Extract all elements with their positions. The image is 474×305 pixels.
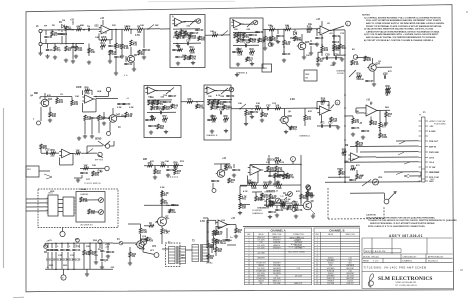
wire xyxy=(113,141,115,146)
lamp pilot light xyxy=(141,239,147,245)
wire xyxy=(47,252,49,258)
pin tick xyxy=(74,203,76,205)
svg-text:2.2K: 2.2K xyxy=(154,109,159,111)
svg-text:C78: C78 xyxy=(298,210,303,212)
svg-text:96-236-01: 96-236-01 xyxy=(428,261,439,263)
resistor R61 xyxy=(379,133,388,139)
wire xyxy=(47,261,49,269)
svg-text:POWER SW: POWER SW xyxy=(256,270,266,272)
svg-text:10K: 10K xyxy=(208,96,212,98)
svg-text:-15V: -15V xyxy=(110,267,115,269)
svg-text:10K 1/4W: 10K 1/4W xyxy=(347,275,355,277)
pin tick xyxy=(47,200,49,202)
wire xyxy=(242,23,253,25)
terminal gnd lug xyxy=(107,132,111,136)
node xyxy=(370,121,372,123)
balloon note 7 xyxy=(291,157,296,162)
svg-text:4: 4 xyxy=(248,245,249,247)
svg-text:10K: 10K xyxy=(360,175,364,177)
transistor Q2 xyxy=(297,42,310,50)
resistor R130 xyxy=(274,173,282,179)
pin tick xyxy=(74,197,76,199)
resistor R86 xyxy=(161,191,169,197)
wire xyxy=(161,226,163,229)
wire xyxy=(321,115,323,123)
resistor R44 xyxy=(163,116,168,124)
svg-text:3: 3 xyxy=(317,242,318,244)
svg-text:+: + xyxy=(208,92,209,94)
wire xyxy=(261,198,263,199)
dashed boundary vertical 2 xyxy=(383,206,385,219)
box module A1 xyxy=(170,15,205,68)
node xyxy=(73,242,75,244)
LED D2 xyxy=(99,198,104,203)
terminal mic xyxy=(37,121,41,125)
wire jack lever xyxy=(105,141,110,146)
wire xyxy=(213,236,215,239)
wire xyxy=(233,164,235,168)
wire xyxy=(316,102,318,109)
svg-text:AND TO COME ROUND SUPPLY OR IN: AND TO COME ROUND SUPPLY OR INDICATED DE… xyxy=(366,22,445,25)
svg-text:+: + xyxy=(321,112,322,114)
svg-text:WHT/BRN: WHT/BRN xyxy=(346,265,354,267)
svg-text:100K: 100K xyxy=(190,53,196,55)
svg-text:220 OHM: 220 OHM xyxy=(327,283,335,285)
wire xyxy=(142,249,144,253)
op-amp U2A xyxy=(172,18,184,26)
svg-text:XFMR PRI: XFMR PRI xyxy=(327,278,335,280)
svg-text:FULL LEFT ROTATION ASSEMBLE MA: FULL LEFT ROTATION ASSEMBLE MAJORS. DIFF… xyxy=(366,19,442,22)
wire xyxy=(307,197,309,201)
wire angled3 xyxy=(396,172,403,175)
wire xyxy=(40,107,42,121)
resistor R70 xyxy=(174,163,179,171)
wire +15 stub xyxy=(72,22,74,26)
wire xyxy=(303,50,305,56)
wire xyxy=(212,183,214,189)
resistor R56 xyxy=(304,115,312,121)
capacitor C53 xyxy=(315,37,324,40)
svg-text:R11: R11 xyxy=(264,197,269,199)
capacitor C42 xyxy=(72,259,81,262)
svg-text:C42: C42 xyxy=(280,35,285,38)
svg-text:.022: .022 xyxy=(281,206,286,208)
svg-text:12: 12 xyxy=(316,265,318,267)
svg-text:17: 17 xyxy=(248,278,250,280)
wire switch to pot xyxy=(362,180,371,187)
pin tick xyxy=(74,206,76,208)
wire xyxy=(356,112,364,114)
resistor R137 xyxy=(333,46,340,52)
svg-text:100K: 100K xyxy=(267,40,273,42)
node xyxy=(180,28,182,30)
wire xyxy=(74,177,82,179)
resistor R121 xyxy=(180,30,189,36)
svg-text:Q26: Q26 xyxy=(305,42,310,44)
svg-text:.047: .047 xyxy=(215,103,220,106)
wire xyxy=(73,252,75,258)
svg-text:R94: R94 xyxy=(275,157,280,160)
transistor Q1 xyxy=(126,55,138,63)
ground xyxy=(94,260,98,264)
resistor R114 xyxy=(154,169,162,175)
wire ribbon jumper 4 xyxy=(58,211,63,213)
svg-text:33K: 33K xyxy=(137,32,142,34)
potentiometer VR4 xyxy=(276,198,281,203)
wire stub xyxy=(44,243,46,247)
logo SLM clef xyxy=(368,274,373,288)
resistor R92 xyxy=(212,238,220,244)
ground xyxy=(38,51,42,55)
svg-text:1M: 1M xyxy=(62,20,65,22)
connector P1 pin 2 xyxy=(419,126,434,128)
wire xyxy=(40,46,42,52)
resistor R38 xyxy=(40,144,48,150)
svg-text:R77: R77 xyxy=(294,202,299,204)
capacitor C61 xyxy=(166,169,175,172)
svg-text:10K: 10K xyxy=(238,103,242,105)
resistor R50 xyxy=(212,115,217,124)
resistor Rb2 xyxy=(189,35,197,41)
wire psu top rail xyxy=(45,242,113,244)
node bus junction xyxy=(344,176,346,178)
svg-text:R16: R16 xyxy=(190,47,195,49)
wire xyxy=(51,243,53,248)
capacitor C55 xyxy=(168,95,177,98)
svg-text:10u: 10u xyxy=(277,177,282,179)
connector P1 pin 13 xyxy=(419,181,435,183)
wire xyxy=(82,90,84,95)
transistor Q7 xyxy=(216,169,229,177)
svg-text:.047: .047 xyxy=(192,37,197,40)
capacitor C32 xyxy=(171,204,179,207)
resistor R66 xyxy=(80,197,88,203)
capacitor C26 xyxy=(351,127,360,129)
wire long to edge xyxy=(325,181,421,184)
svg-text:17: 17 xyxy=(316,278,318,280)
wire xyxy=(39,97,41,99)
wire xyxy=(383,193,385,199)
wire into module A1 xyxy=(160,28,170,30)
resistor R41 xyxy=(148,100,156,106)
svg-text:WHT/BRN: WHT/BRN xyxy=(327,260,335,262)
node xyxy=(154,99,156,101)
node bus junction xyxy=(344,107,346,109)
ground xyxy=(87,60,91,64)
resistor R21 xyxy=(250,49,255,57)
svg-text:+: + xyxy=(235,25,236,27)
svg-text:10K: 10K xyxy=(75,96,79,98)
resistor R136 xyxy=(269,201,276,207)
wire xyxy=(339,36,341,44)
wire to pin 11 xyxy=(384,171,419,173)
wire xyxy=(49,107,51,112)
wire xyxy=(39,170,50,172)
svg-text:2: 2 xyxy=(317,240,318,242)
resistor R9 xyxy=(115,43,123,49)
ground xyxy=(74,54,78,58)
wire xyxy=(321,35,323,46)
svg-text:10u: 10u xyxy=(112,54,117,56)
svg-text:R14: R14 xyxy=(101,42,106,45)
svg-text:11: 11 xyxy=(316,263,318,265)
resistor R116 xyxy=(255,196,263,202)
ground xyxy=(108,59,112,63)
wire xyxy=(130,29,132,34)
svg-text:8: 8 xyxy=(317,255,318,257)
svg-text:+: + xyxy=(251,172,252,174)
resistor R82 xyxy=(306,191,314,197)
connector P1 note xyxy=(434,120,446,126)
svg-text:R23: R23 xyxy=(250,49,255,51)
resistor R89 xyxy=(149,223,154,227)
svg-text:22K: 22K xyxy=(143,159,148,161)
tick mark xyxy=(460,269,463,271)
resistor R127 xyxy=(294,202,299,210)
wire feedback top xyxy=(87,89,92,91)
capacitor C33 xyxy=(225,239,232,242)
node xyxy=(339,176,341,178)
svg-text:2.2K: 2.2K xyxy=(83,201,88,203)
resistor R24 xyxy=(283,40,291,46)
resistor R71 xyxy=(174,169,182,175)
op-amp U8 xyxy=(348,153,361,161)
terminal psu in2 xyxy=(98,240,102,244)
resistor R52 xyxy=(245,110,253,116)
ground xyxy=(284,130,288,134)
wire xyxy=(101,262,103,267)
svg-text:+: + xyxy=(367,113,368,115)
wire xyxy=(360,156,377,158)
node xyxy=(283,51,285,53)
ground xyxy=(164,130,168,134)
wire xyxy=(226,228,228,239)
capacitor C40 xyxy=(60,259,69,262)
node xyxy=(321,44,323,46)
wire xyxy=(207,218,209,243)
svg-text:WHT/BRN: WHT/BRN xyxy=(273,270,281,272)
svg-text:REF: REF xyxy=(247,234,250,236)
wire xyxy=(40,33,42,43)
title block row model xyxy=(363,255,444,258)
node xyxy=(300,164,302,166)
svg-text:33K: 33K xyxy=(268,25,272,27)
ground xyxy=(361,135,365,139)
pin tick xyxy=(47,203,49,205)
title block row page xyxy=(363,260,439,263)
capacitor C23 xyxy=(266,105,271,110)
wire xyxy=(56,97,58,98)
wire xyxy=(67,261,69,269)
resistor R5 xyxy=(88,48,96,54)
svg-text:CHANNEL B: CHANNEL B xyxy=(206,134,218,137)
node xyxy=(316,29,318,31)
wire xyxy=(377,109,390,111)
zener D4 xyxy=(76,244,79,247)
wire xyxy=(143,245,145,250)
resistor R14 xyxy=(178,47,183,51)
node xyxy=(207,222,209,224)
capacitor Cb1 xyxy=(182,36,191,39)
wire vcc stub xyxy=(321,21,323,26)
wire angled2 xyxy=(404,162,410,164)
wire xyxy=(316,30,318,37)
ground xyxy=(309,51,313,55)
node bus junction xyxy=(344,154,346,156)
wire xyxy=(111,30,113,41)
svg-text:C76: C76 xyxy=(211,120,216,122)
svg-text:C11: C11 xyxy=(54,250,59,252)
wire xyxy=(109,122,111,132)
wire xyxy=(99,244,101,248)
wire xyxy=(95,255,97,260)
capacitor C75 xyxy=(46,249,53,252)
resistor R105 xyxy=(198,36,206,42)
capacitor C15 xyxy=(383,74,388,79)
wire fb U9 xyxy=(250,163,301,165)
svg-text:2.2K: 2.2K xyxy=(124,48,129,50)
wire balloon stem xyxy=(292,161,294,164)
wire ribbon 2 xyxy=(26,202,48,204)
terminal T1 xyxy=(60,231,65,236)
pin tick xyxy=(74,212,76,214)
wire xyxy=(339,49,341,55)
node xyxy=(67,243,69,245)
wire ribbon jumper 3 xyxy=(58,207,63,209)
svg-text:C31: C31 xyxy=(48,37,53,39)
wire xyxy=(98,121,100,134)
pin tick xyxy=(74,209,76,211)
svg-text:CHANNEL B: CHANNEL B xyxy=(257,207,269,210)
svg-text:C56: C56 xyxy=(167,102,172,104)
resistor R12 xyxy=(175,31,183,37)
resistor R74 xyxy=(248,180,253,184)
wire xyxy=(318,51,322,53)
svg-text:VU METER: VU METER xyxy=(252,210,262,212)
resistor R1 xyxy=(51,31,58,37)
wire xyxy=(42,42,60,44)
svg-text:10K 1/4W: 10K 1/4W xyxy=(295,275,303,277)
resistor R55 xyxy=(290,126,298,131)
ground xyxy=(150,115,154,119)
svg-text:TO FOOT SWITCH: TO FOOT SWITCH xyxy=(84,183,101,185)
ground xyxy=(149,130,153,134)
svg-text:47p: 47p xyxy=(293,128,298,131)
wire xyxy=(373,72,375,83)
resistor R64 xyxy=(84,166,89,170)
wire xyxy=(372,58,374,64)
wire xyxy=(276,206,278,209)
resistor R95 xyxy=(287,206,295,211)
svg-text:C50: C50 xyxy=(230,96,235,98)
capacitor C30 xyxy=(276,175,285,178)
wire xyxy=(334,29,345,31)
wire ribbon jumper 2 xyxy=(58,203,63,205)
wire xyxy=(257,172,259,184)
resistor R36 xyxy=(98,115,106,121)
wire ribbon 1 xyxy=(26,198,48,200)
title block frame xyxy=(362,238,453,289)
wire xyxy=(156,90,170,92)
svg-text:220 OHM: 220 OHM xyxy=(273,283,281,285)
transistor Q5 xyxy=(108,113,121,122)
svg-text:2.2K: 2.2K xyxy=(160,187,165,189)
ground xyxy=(260,118,264,122)
wire xyxy=(379,110,381,122)
svg-text:2200: 2200 xyxy=(49,265,53,267)
resistor R53 xyxy=(255,106,261,110)
svg-text:WIRE CODE: WIRE CODE xyxy=(272,234,281,236)
wire xyxy=(73,261,75,269)
transistor Q8 xyxy=(302,201,315,210)
svg-text:R24: R24 xyxy=(286,43,291,46)
tick mark xyxy=(466,11,468,13)
svg-text:1N4003: 1N4003 xyxy=(328,258,334,260)
wire xyxy=(274,178,276,183)
ground xyxy=(332,61,336,65)
svg-text:2.2K: 2.2K xyxy=(286,199,291,201)
svg-text:2.2K: 2.2K xyxy=(258,200,263,202)
resistor R69 xyxy=(161,163,166,167)
svg-text:1K: 1K xyxy=(182,55,185,57)
wire xyxy=(71,97,73,100)
arrowhead chassis xyxy=(393,191,396,194)
node xyxy=(65,43,67,45)
wire xyxy=(344,156,346,182)
capacitor C8 xyxy=(249,34,258,37)
svg-text:-15V: -15V xyxy=(429,126,434,128)
svg-text:5%: 5% xyxy=(249,61,252,63)
node xyxy=(83,29,85,31)
node xyxy=(184,21,186,23)
dashed boundary vertical xyxy=(327,188,329,219)
wire xyxy=(264,204,290,206)
svg-text:+15: +15 xyxy=(126,98,129,100)
resistor R26 xyxy=(321,46,329,52)
wire xyxy=(140,224,142,228)
svg-text:7: 7 xyxy=(248,252,249,254)
svg-text:CHECKED BY: CHECKED BY xyxy=(403,256,417,258)
wire chassis arrow xyxy=(389,192,397,200)
resistor R23 xyxy=(285,27,291,31)
node bus junction xyxy=(344,160,346,162)
wire xyxy=(377,66,392,68)
svg-text:R54: R54 xyxy=(321,98,326,101)
resistor R18 xyxy=(234,33,242,39)
resistor R27 xyxy=(333,44,341,50)
capacitor C50 xyxy=(255,31,264,34)
svg-text:220 OHM: 220 OHM xyxy=(257,252,265,254)
wire xyxy=(44,93,46,99)
node bus junction xyxy=(344,125,346,127)
wire switch lever xyxy=(221,88,228,94)
svg-text:U2A: U2A xyxy=(97,90,102,93)
svg-text:C16: C16 xyxy=(76,250,81,252)
wire xyxy=(356,107,364,109)
svg-text:Q41: Q41 xyxy=(48,98,53,101)
wire xyxy=(261,109,263,112)
resistor R123 xyxy=(237,32,245,38)
wire xyxy=(294,29,296,31)
wire xyxy=(63,269,65,275)
wire xyxy=(215,90,229,92)
wire jack contact xyxy=(98,155,103,159)
svg-text:C29: C29 xyxy=(325,55,330,57)
resistor R139 xyxy=(54,46,62,52)
op-amp U5A xyxy=(145,87,157,94)
wire xyxy=(310,40,312,42)
svg-text:C20: C20 xyxy=(76,259,81,261)
